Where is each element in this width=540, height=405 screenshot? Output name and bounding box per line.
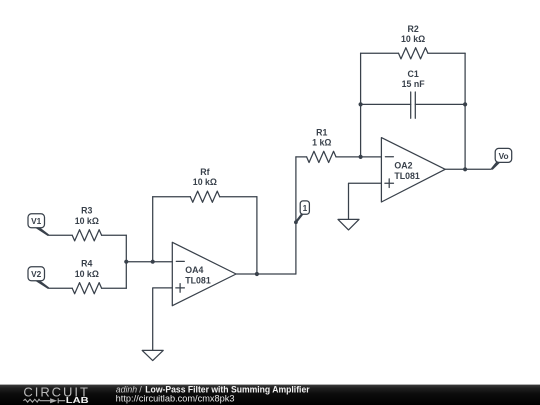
ground OA2 [338, 219, 359, 230]
wire OA2 non-inverting to ground [349, 183, 382, 219]
wire feedback left vertical [360, 53, 362, 157]
wire OA4 non-inverting to ground [153, 288, 173, 351]
junction dot output/feedback [463, 167, 467, 171]
logo resistor zigzag glyph [23, 399, 50, 402]
svg-text:OA4: OA4 [185, 265, 203, 275]
svg-text:V1: V1 [31, 216, 42, 226]
svg-text:15 nF: 15 nF [402, 79, 426, 89]
wire OA4 output [236, 273, 296, 275]
junction dot Rf tap [151, 260, 155, 264]
wire feedback right vertical [464, 53, 466, 169]
wire summing vertical [125, 235, 127, 288]
svg-text:http://circuitlab.com/cmx8pk3: http://circuitlab.com/cmx8pk3 [116, 394, 235, 404]
wire Rf right vertical [256, 197, 258, 274]
svg-text:Rf: Rf [200, 167, 209, 177]
node junction dot summing [124, 260, 128, 264]
logo diode glyph [50, 398, 57, 403]
wire Rf left vertical [152, 197, 154, 262]
svg-text:R1: R1 [316, 127, 327, 137]
wire summing to OA4 inverting input [126, 261, 172, 263]
svg-text:V2: V2 [31, 269, 42, 279]
junction dot C1 left [359, 102, 363, 106]
svg-text:TL081: TL081 [394, 171, 420, 181]
svg-text:10 kΩ: 10 kΩ [401, 34, 425, 44]
net flag node 1 [294, 201, 309, 224]
op-amp U1 OA4 [172, 242, 236, 305]
svg-text:10 kΩ: 10 kΩ [193, 177, 217, 187]
net flag Vo [491, 148, 512, 170]
junction dot Rf output [255, 272, 259, 276]
resistor R3 [49, 206, 127, 241]
net flag V1 [28, 214, 49, 236]
svg-text:R4: R4 [81, 259, 92, 269]
svg-text:1: 1 [303, 203, 308, 213]
svg-text:10 kΩ: 10 kΩ [75, 269, 99, 279]
junction dot R1 / feedback [359, 155, 363, 159]
svg-text:R2: R2 [407, 24, 418, 34]
svg-text:LAB: LAB [66, 396, 89, 405]
op-amp U2 OA2 [381, 138, 445, 202]
net flag V2 [28, 267, 49, 289]
resistor R1 [296, 127, 382, 162]
svg-text:10 kΩ: 10 kΩ [75, 216, 99, 226]
capacitor C1 [361, 69, 466, 118]
resistor Rf [153, 167, 257, 202]
wire OA2 output [445, 168, 491, 170]
svg-text:1 kΩ: 1 kΩ [312, 138, 331, 148]
resistor R2 [361, 24, 466, 59]
resistor R4 [49, 259, 127, 294]
svg-text:Vo: Vo [499, 151, 509, 161]
junction dot C1 right [463, 102, 467, 106]
svg-text:R3: R3 [81, 206, 92, 216]
svg-text:OA2: OA2 [394, 161, 412, 171]
svg-text:TL081: TL081 [185, 276, 211, 286]
svg-text:C1: C1 [407, 69, 418, 79]
ground OA4 [142, 350, 163, 360]
wire output up to R1 [295, 157, 297, 274]
